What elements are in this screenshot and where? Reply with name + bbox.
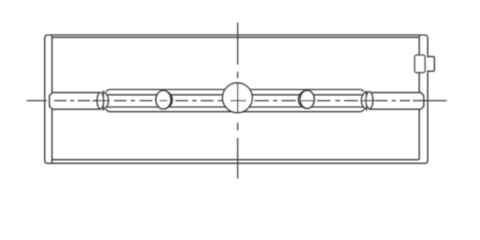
vertical centerline (dash-dot) — [237, 23, 239, 179]
oil hole 5 near-edge arc — [361, 92, 366, 110]
bottom inner edge line — [52, 159, 419, 161]
oil groove inner edge lines, hole1 to hole2 — [107, 95, 164, 107]
center oil hole — [223, 83, 253, 113]
oil groove chamfer at hole 5 — [361, 90, 364, 112]
oil groove outer edge lines, hole2 to center hole — [163, 90, 238, 112]
oil groove left runout (2-line section with chamfered tip) — [49, 93, 101, 110]
bearing shell outer outline (gap on right edge for locating lug) — [45, 35, 428, 163]
top inner edge line — [52, 36, 419, 38]
right inner edge line (broken by lug pocket and groove) — [418, 35, 420, 159]
oil groove outer edge lines, hole4 to hole5 — [307, 90, 361, 112]
oil groove inner edge lines, hole2 to center hole — [163, 95, 238, 107]
oil groove inner edge lines, hole4 to hole5 — [307, 95, 364, 107]
oil hole 4 — [300, 91, 314, 109]
oil hole 5 (foreshortened ellipse) — [366, 92, 373, 109]
oil hole 1 (foreshortened ellipse) — [97, 93, 104, 109]
left inner edge line (broken by groove) — [51, 35, 53, 163]
oil groove right runout (2-line section with chamfered tip) — [369, 93, 424, 110]
locating lug tab — [427, 57, 434, 72]
oil groove outer edge lines, hole1 to hole2 — [109, 90, 163, 112]
oil hole 2 — [156, 91, 171, 110]
locating lug pocket — [415, 55, 425, 73]
oil groove outer edge lines, center hole to hole4 — [237, 90, 308, 112]
oil groove inner edge lines, center hole to hole4 — [237, 95, 308, 107]
horizontal centerline (dash-dot) — [27, 100, 447, 102]
oil groove chamfer at hole 1 — [106, 90, 109, 112]
oil hole 1 near-edge arc — [103, 92, 108, 110]
oil hole 2 near-edge arc — [166, 91, 172, 108]
oil hole 4 near-edge arc — [298, 91, 304, 108]
